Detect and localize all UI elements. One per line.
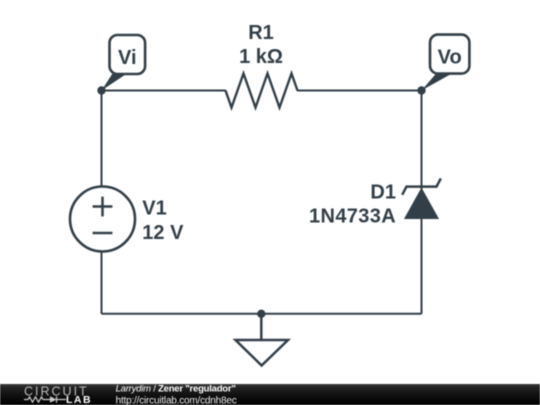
junction node Vi bbox=[97, 86, 105, 94]
svg-text:1N4733A: 1N4733A bbox=[309, 206, 396, 228]
node Vo callout bbox=[422, 35, 470, 91]
wire right vertical lower bbox=[421, 219, 423, 314]
node Vi callout bbox=[102, 35, 146, 91]
svg-text:LAB: LAB bbox=[66, 394, 92, 405]
svg-text:1 kΩ: 1 kΩ bbox=[239, 46, 283, 68]
svg-text:Vo: Vo bbox=[438, 47, 462, 69]
voltage source V1 bbox=[70, 187, 135, 252]
junction node Vo bbox=[417, 86, 425, 94]
svg-text:D1: D1 bbox=[370, 181, 396, 203]
footer bar bbox=[0, 384, 540, 405]
wire left vertical upper bbox=[101, 91, 103, 188]
svg-text:R1: R1 bbox=[248, 22, 274, 44]
wire left vertical lower bbox=[101, 251, 103, 314]
wire top-left horizontal bbox=[102, 90, 227, 92]
zener diode D1 bbox=[402, 178, 441, 218]
ground bbox=[236, 314, 289, 366]
svg-text:V1: V1 bbox=[142, 198, 166, 220]
CircuitLab logo resistor-diode glyph bbox=[24, 396, 66, 403]
junction ground node bbox=[257, 310, 265, 318]
wire top-right horizontal bbox=[297, 90, 422, 92]
svg-text:12 V: 12 V bbox=[142, 222, 184, 244]
wire right vertical upper bbox=[421, 91, 423, 191]
svg-text:Larrydim / Zener "regulador": Larrydim / Zener "regulador" bbox=[116, 384, 236, 395]
svg-text:http://circuitlab.com/cdnh8ec: http://circuitlab.com/cdnh8ec bbox=[116, 395, 237, 405]
wire bottom horizontal bbox=[102, 313, 422, 315]
svg-text:Vi: Vi bbox=[118, 47, 137, 69]
resistor R1 bbox=[226, 74, 298, 108]
